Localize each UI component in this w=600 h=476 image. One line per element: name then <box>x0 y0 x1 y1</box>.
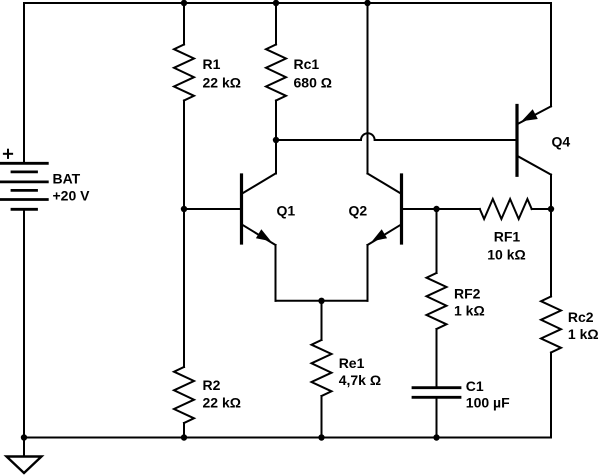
transistor Q2 emitter arrow <box>372 229 387 241</box>
wire: bottom ground rail <box>24 437 551 439</box>
transistor Q1 bar <box>240 175 243 243</box>
transistor Q2 collector diagonal <box>368 174 401 194</box>
resistor R2 <box>174 367 194 423</box>
wire: Rc2 bottom to ground rail <box>550 353 552 438</box>
transistor Q1 collector diagonal <box>243 174 276 194</box>
node B: Q2 base / RF1 / RF2 <box>433 206 439 212</box>
resistor Rc2 <box>541 297 561 353</box>
wire: R2 bottom to ground rail <box>183 423 185 438</box>
node: ground rail / R2 <box>181 434 187 440</box>
svg-text:Q4: Q4 <box>552 133 571 149</box>
svg-text:Q1: Q1 <box>277 203 296 219</box>
svg-text:BAT: BAT <box>53 170 81 186</box>
resistor RF1 <box>480 199 532 219</box>
svg-text:Rc1: Rc1 <box>294 56 320 72</box>
wire: node B down to RF2 <box>436 209 438 273</box>
wire: Q4 collector to node C <box>550 175 552 209</box>
wire: R1 bottom to base node to R2 top <box>183 101 185 368</box>
node C: Q4 collector / RF1 / Rc2 <box>548 206 554 212</box>
svg-text:Re1: Re1 <box>339 355 365 371</box>
svg-text:680 Ω: 680 Ω <box>294 75 332 91</box>
transistor Q4 emitter arrow <box>522 109 538 121</box>
svg-text:1 kΩ: 1 kΩ <box>568 326 599 342</box>
battery BAT plates <box>1 163 48 209</box>
node: R1-R2 / Q1 base <box>181 206 187 212</box>
transistor Q2 bar <box>400 175 403 243</box>
wire: Q2 emitter drop <box>367 245 369 301</box>
battery plus sign <box>4 150 12 158</box>
resistor Rc1 <box>266 45 286 101</box>
wire: R1 top feed <box>183 3 185 45</box>
wire: Q4 base wire with hop over Q2 collector line <box>276 133 516 140</box>
transistor Q2 emitter diagonal <box>368 225 401 245</box>
svg-text:10 kΩ: 10 kΩ <box>487 247 525 263</box>
svg-text:R2: R2 <box>203 377 221 393</box>
transistor Q1 emitter diagonal <box>243 225 276 245</box>
wire: RF2 bottom to C1 top plate <box>436 329 438 387</box>
node: top rail / Q2 collector <box>364 0 370 6</box>
svg-text:4,7k Ω: 4,7k Ω <box>339 372 381 388</box>
svg-text:1 kΩ: 1 kΩ <box>454 302 485 318</box>
resistor RF2 <box>427 273 447 329</box>
resistor R1 <box>174 45 194 101</box>
svg-text:Rc2: Rc2 <box>568 309 594 325</box>
wire: Q2 collector column to top rail <box>367 3 369 174</box>
wire: Re1 bottom to ground rail <box>321 396 323 438</box>
transistor Q4 collector diagonal <box>518 156 551 174</box>
wire: left rail from top rail to battery + <box>23 3 25 163</box>
svg-text:100 µF: 100 µF <box>466 395 510 411</box>
svg-text:RF2: RF2 <box>454 286 481 302</box>
wire: node B to RF1 left <box>437 208 480 210</box>
wire: RF1 right to node C <box>532 208 551 210</box>
svg-text:+20 V: +20 V <box>53 187 91 203</box>
capacitor C1 <box>413 388 460 398</box>
transistor Q1 emitter arrow <box>256 229 271 241</box>
wire: Q1 emitter drop <box>275 245 277 301</box>
node: top rail / Rc1 <box>273 0 279 6</box>
svg-text:RF1: RF1 <box>494 229 521 245</box>
node: ground rail / battery <box>21 434 27 440</box>
wire: top +V rail <box>24 2 551 4</box>
wire: Rc1 top feed <box>275 3 277 45</box>
transistor Q1 base wire <box>184 208 240 210</box>
wire: emitter join horizontal <box>276 300 368 302</box>
svg-text:22 kΩ: 22 kΩ <box>203 395 241 411</box>
node: ground rail / C1 <box>433 434 439 440</box>
wire: Q4 emitter riser to top rail <box>550 3 552 106</box>
transistor Q4 emitter diagonal <box>518 106 551 124</box>
wire: Rc1 bottom to node A and down to Q1 collector <box>275 101 277 174</box>
wire: node C down to Rc2 <box>550 209 552 297</box>
wire: emitter node down to Re1 <box>321 301 323 340</box>
node: ground rail / Re1 <box>318 434 324 440</box>
wire: C1 bottom plate to ground rail <box>436 398 438 438</box>
svg-text:22 kΩ: 22 kΩ <box>203 75 241 91</box>
node: top rail / R1 <box>181 0 187 6</box>
svg-text:R1: R1 <box>203 56 221 72</box>
svg-text:Q2: Q2 <box>349 203 368 219</box>
transistor Q4 bar <box>515 106 518 176</box>
ground symbol <box>7 457 42 474</box>
node: emitter join / Re1 <box>318 298 324 304</box>
svg-text:C1: C1 <box>466 378 484 394</box>
wire: Q2 base to node B <box>402 208 437 210</box>
transistor Q2 base wire <box>403 208 437 210</box>
resistor Re1 <box>312 340 332 396</box>
wire: ground stub <box>23 438 25 457</box>
node A: Rc1 / Q1 collector / Q4 base <box>273 137 279 143</box>
wire: battery - down to ground rail <box>23 210 25 438</box>
